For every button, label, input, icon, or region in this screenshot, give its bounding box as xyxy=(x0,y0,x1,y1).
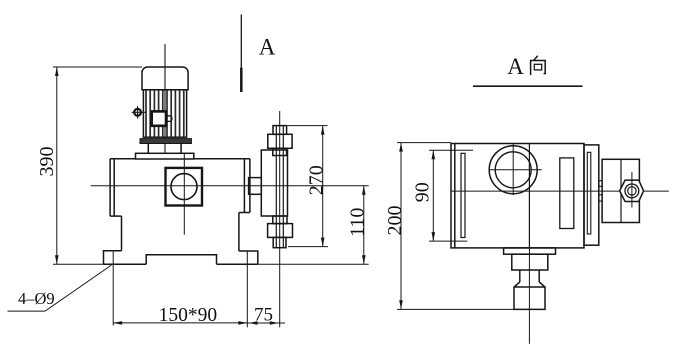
dimension 90 line xyxy=(432,150,434,241)
knob hex nut xyxy=(620,180,644,201)
body top edge xyxy=(110,158,135,160)
dimension 200 line xyxy=(400,143,402,310)
motor junction box xyxy=(152,111,166,125)
dimension 90 arrow top xyxy=(432,150,436,159)
motor junction box tab xyxy=(166,116,172,122)
base bottom left segment xyxy=(104,263,147,265)
dimension 200 arrow top xyxy=(399,143,403,152)
dimension 270 extension top xyxy=(288,125,328,127)
bottom valve lower rect xyxy=(273,237,286,247)
knob bracket divider xyxy=(620,159,622,222)
right view foot top edge xyxy=(514,286,545,288)
dimension 150x90 arrow left xyxy=(113,321,122,325)
base bottom right segment xyxy=(217,263,258,265)
right view left plate line xyxy=(454,144,456,248)
bottom valve nut xyxy=(268,224,293,238)
right foot xyxy=(239,251,258,264)
right cover inner pair xyxy=(587,152,591,234)
dimension 200 extension bottom xyxy=(397,308,514,310)
right lower side xyxy=(238,213,240,252)
pump head column xyxy=(261,150,287,216)
sight glass crosshair vertical xyxy=(512,144,514,196)
top valve nut xyxy=(268,134,292,148)
view title A xiang xyxy=(473,54,583,86)
pump body outline left view xyxy=(104,159,258,265)
dimension 75 arrow left xyxy=(249,321,258,325)
dimension 390 arrow bottom xyxy=(55,255,59,264)
dimension 110 line xyxy=(363,186,365,264)
right plate inner line xyxy=(243,159,245,213)
motor centerline xyxy=(164,44,166,155)
dimension 150x90 extension right xyxy=(246,251,248,327)
motor eye bolt xyxy=(132,106,147,119)
dimension 270 arrow bottom xyxy=(321,238,325,247)
knob vertical centerline xyxy=(631,172,633,207)
dimension 110 arrow top xyxy=(362,186,366,195)
left lower side xyxy=(121,216,123,251)
left step cap xyxy=(110,215,121,217)
dimension 90 arrow bottom xyxy=(432,232,436,241)
dimension 90 extension top xyxy=(429,149,473,151)
sight glass inner circle xyxy=(495,152,531,188)
knob bracket xyxy=(602,159,639,222)
svg-text:A: A xyxy=(259,35,276,60)
valve pipe walls xyxy=(276,126,283,248)
right view base plate xyxy=(504,248,556,254)
knob circle outer xyxy=(625,184,639,198)
dimension 390 line xyxy=(56,67,58,264)
right view block2 xyxy=(512,254,548,270)
glyph xiang xyxy=(531,56,546,75)
svg-text:4–Ø9: 4–Ø9 xyxy=(18,289,55,308)
bottom valve upper rect xyxy=(273,216,287,224)
right view centerline xyxy=(528,248,530,344)
dimension 150x90 extension left xyxy=(112,252,114,326)
right view vertical seam xyxy=(528,144,530,248)
dimension 390 extension top xyxy=(53,66,142,68)
dimension 75 line xyxy=(247,322,285,324)
dimension 150x90 arrow right xyxy=(238,321,247,325)
right view body xyxy=(451,144,584,248)
dimension 110 arrow bottom xyxy=(362,255,366,264)
knob tab upper xyxy=(599,181,602,187)
svg-text:390: 390 xyxy=(36,147,58,177)
dimension 90 extension bottom xyxy=(429,240,467,242)
top valve lower rect xyxy=(273,148,287,155)
knob tab lower xyxy=(599,195,602,201)
dimension 270 arrow top xyxy=(321,126,325,135)
title underline xyxy=(473,85,583,87)
dimension 270 line xyxy=(322,126,324,247)
sight glass outer circle xyxy=(489,146,537,194)
right view flange inner pair xyxy=(461,153,465,237)
dimension 390 arrow top xyxy=(55,67,59,76)
section line A xyxy=(240,15,242,93)
pump vertical centerline xyxy=(183,153,185,234)
nameplate window xyxy=(560,158,574,229)
svg-text:270: 270 xyxy=(305,165,327,195)
left foot xyxy=(104,251,122,264)
valve centerline xyxy=(279,111,281,327)
connector to pump head xyxy=(249,178,262,195)
leader 4-d9 xyxy=(8,265,112,311)
right step cap xyxy=(239,212,250,214)
left plate inner line xyxy=(113,159,115,216)
dimension 110 extension bottom xyxy=(258,263,369,265)
sight glass crosshair horizontal xyxy=(489,169,542,171)
dimension 200 arrow bottom xyxy=(399,300,403,309)
motor body outline xyxy=(143,90,186,137)
right plate outer line xyxy=(249,159,251,213)
knob circle inner xyxy=(628,187,636,195)
motor fins xyxy=(146,90,184,137)
svg-text:A: A xyxy=(507,54,524,79)
plunger circle xyxy=(171,174,197,200)
right view horizontal seam / knob centerline xyxy=(451,190,669,192)
dimension 150x90 line xyxy=(113,322,247,324)
dimension 270 extension bottom xyxy=(288,246,328,248)
right view foot xyxy=(514,282,545,309)
svg-text:75: 75 xyxy=(254,305,273,326)
motor flange bar xyxy=(140,139,191,144)
svg-text:90: 90 xyxy=(411,182,433,202)
dimension 390 extension bottom xyxy=(53,263,104,265)
svg-text:150*90: 150*90 xyxy=(159,305,218,326)
motor neck xyxy=(148,144,181,154)
base channel notch xyxy=(146,255,216,265)
top valve small rect xyxy=(273,126,287,135)
motor mount plate xyxy=(136,153,194,159)
svg-text:200: 200 xyxy=(384,206,406,236)
left plate outer line xyxy=(109,159,111,216)
right view neck xyxy=(520,270,539,282)
svg-text:110: 110 xyxy=(346,208,368,237)
main horizontal centerline xyxy=(91,185,369,187)
dimension 75 arrow right xyxy=(270,321,279,325)
motor cap xyxy=(142,67,188,90)
dimension 200 extension top xyxy=(397,142,451,144)
plunger housing square xyxy=(166,168,203,206)
right cover xyxy=(584,145,599,245)
